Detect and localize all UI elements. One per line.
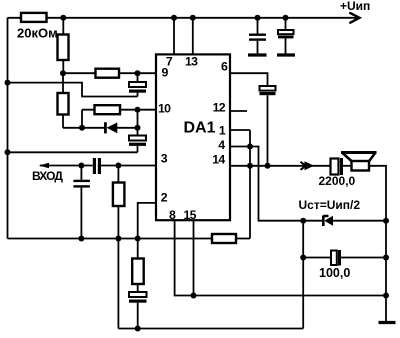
wire C4 return Z-path to left rail (8, 83, 138, 97)
wire input line to pin 3 (40, 165, 156, 167)
wire pin 2 (138, 203, 156, 239)
svg-text:6: 6 (221, 60, 228, 74)
wire zener row (303, 220, 386, 222)
node: common row / pin2 / R8 (135, 236, 141, 242)
node: 100,0 row right (383, 255, 389, 261)
wire pin 1 (230, 129, 250, 131)
supply arrow +Uип (349, 13, 359, 24)
input arrow ВХОД (39, 163, 49, 169)
node: pin14 / riser (247, 163, 253, 169)
node: bottom rail / C6 (135, 326, 141, 332)
resistor R2 (58, 18, 69, 73)
resistor R5 (95, 105, 121, 114)
capacitor C9 electrolytic (260, 86, 276, 166)
wire left rail (7, 18, 9, 239)
resistor R4 (58, 73, 69, 128)
svg-text:2200,0: 2200,0 (319, 174, 356, 188)
wire pin9 row (63, 72, 156, 74)
node: diode row / C5 junction (135, 125, 141, 131)
capacitor C2 (73, 166, 90, 239)
wire diode row (63, 127, 138, 129)
capacitor C6 electrolytic (129, 292, 147, 329)
svg-text:100,0: 100,0 (319, 266, 350, 280)
wire C5 return to left rail (8, 151, 138, 153)
ground symbol right (379, 321, 396, 324)
node: right rail y295.5 (383, 293, 389, 299)
node: 100,0 row left (300, 255, 306, 261)
wire pin10 row (82, 109, 156, 111)
resistor R1 20kOhm (21, 13, 47, 22)
wire pin10 row riser (81, 110, 83, 128)
svg-text:+Uип: +Uип (340, 0, 370, 13)
node: pin9 row / C4 junction (135, 70, 141, 76)
node: input line / R6 junction (115, 163, 121, 169)
resistor R8 (132, 239, 144, 293)
zener diode VD2 (323, 216, 333, 227)
capacitor C4 electrolytic (129, 73, 146, 96)
svg-text:14: 14 (212, 152, 225, 166)
capacitor C11 100,0 (331, 250, 341, 266)
svg-text:ВХОД: ВХОД (32, 169, 63, 183)
svg-text:15: 15 (184, 208, 197, 222)
node: input line / C2 junction (78, 163, 84, 169)
node: R2 bottom junction (60, 70, 66, 76)
ground bar for C7 (248, 53, 267, 56)
node: top rail / pin7 (171, 15, 177, 21)
node: common row / C2 (78, 236, 84, 242)
IC DA1 body (156, 54, 230, 220)
svg-text:2: 2 (161, 190, 168, 204)
resistor R6 (113, 166, 125, 239)
svg-text:8: 8 (169, 208, 176, 222)
node: pin4 line / riser (247, 144, 253, 150)
svg-text:20кОм: 20кОм (17, 25, 58, 40)
wire speaker to right rail (369, 166, 386, 322)
node: top rail / C7 (255, 15, 261, 21)
ground bar for C8 (277, 53, 295, 56)
capacitor C1 input coupling (93, 158, 101, 174)
svg-text:13: 13 (185, 54, 198, 68)
capacitor C10 2200,0 (331, 158, 352, 175)
node: zener row left (300, 218, 306, 224)
capacitor C7 (249, 18, 266, 54)
pin 7 wire (173, 18, 175, 55)
svg-text:1: 1 (219, 124, 226, 138)
capacitor C8 electrolytic (278, 18, 294, 54)
node: left rail tap at y83 (5, 80, 11, 86)
node: pin8/pin15 join (191, 293, 197, 299)
svg-text:3: 3 (161, 152, 168, 166)
node: pin10 row / C5 junction (135, 107, 141, 113)
node: top rail / C8 (283, 15, 289, 21)
node: diode row left junction (79, 125, 85, 131)
pin 13 wire (192, 18, 194, 55)
wire pin 15 (193, 220, 195, 295)
wire mid riser x303 (302, 221, 304, 329)
wire pin 8 to right rail (175, 220, 386, 295)
node: left rail tap at y152 (5, 149, 11, 155)
node: zener row right (383, 218, 389, 224)
svg-text:DA1: DA1 (184, 120, 216, 137)
wire common row y238.5 (8, 238, 251, 240)
resistor R7 feedback (212, 234, 236, 243)
wire pin 6 (230, 73, 268, 86)
svg-text:12: 12 (213, 101, 226, 115)
pin 12 stub (230, 110, 247, 112)
wire left down rail x118 (117, 239, 119, 329)
node: top rail / R2 junction (60, 15, 66, 21)
resistor R3 (96, 69, 120, 78)
wire bottom rail (118, 328, 303, 330)
svg-text:4: 4 (218, 138, 225, 152)
wire pin 14 output (230, 165, 331, 167)
svg-text:Uст=Uип/2: Uст=Uип/2 (299, 198, 361, 212)
node: common row / R6 / down rail (115, 236, 121, 242)
diode VD1 (105, 122, 117, 133)
node: top rail / pin13 (190, 15, 196, 21)
output direction arrow (301, 161, 315, 170)
wire 100,0 row (303, 257, 386, 259)
node: pin14 / C9 (265, 163, 271, 169)
wire R7 to pins 1-4-14 riser (249, 130, 251, 239)
wire top supply rail (8, 17, 359, 19)
svg-text:9: 9 (162, 65, 169, 79)
capacitor C5 electrolytic (129, 110, 146, 153)
speaker BA1 (341, 153, 377, 171)
wire pin 4 (230, 147, 303, 221)
svg-text:10: 10 (158, 101, 171, 115)
